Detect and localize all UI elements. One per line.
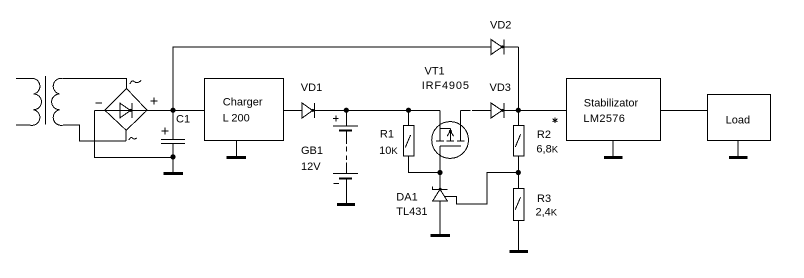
wire VD1 to battery node and R1 node [314,110,440,112]
node R1 top [406,108,411,113]
ground under R3 [510,250,528,253]
svg-text:TL431: TL431 [396,206,427,218]
label ~ bottom of bridge [129,138,137,140]
diode VD3 [491,103,504,118]
diode VD1 [302,103,314,118]
svg-text:Stabilizator: Stabilizator [584,97,639,109]
label asterisk [553,118,558,124]
label plus of C1 [162,128,169,135]
svg-text:6,8K: 6,8K [536,144,558,156]
svg-text:IRF4905: IRF4905 [422,80,470,92]
resistor R3 [513,173,524,250]
node GB1 [344,108,349,113]
svg-text:DA1: DA1 [396,191,417,203]
stabilizator box U2 [566,79,660,141]
ground under C1 [164,172,183,175]
svg-text:2,4K: 2,4K [536,207,558,219]
svg-text:R2: R2 [537,129,551,141]
label plus of GB1 [333,116,339,122]
transformer T1 secondary winding [52,78,63,125]
svg-text:LM2576: LM2576 [583,113,625,125]
node R2 R3 [516,170,521,175]
ground under GB1 [337,203,355,206]
svg-text:C1: C1 [176,113,190,125]
bridge rectifier diamond [105,88,147,130]
label plus right of bridge [151,97,158,104]
ground under stabilizator [604,141,623,159]
wire bridge bottom vertex stub [125,130,127,141]
node VD3 R2 [516,108,521,113]
svg-text:VD1: VD1 [301,82,322,94]
wire VD2 to node above VD3 [504,47,518,110]
load box [708,94,771,140]
ground under charger [227,141,246,159]
svg-text:10K: 10K [379,145,398,157]
svg-text:R1: R1 [380,129,394,141]
ground under DA1 [431,234,450,237]
node gate R1 DA1 [437,170,442,175]
svg-text:12V: 12V [301,161,321,173]
wire MOSFET drain to VD3 [461,110,491,112]
ground under load [729,141,748,159]
svg-text:VD2: VD2 [490,19,511,31]
svg-text:GB1: GB1 [301,145,323,157]
label ~ top of bridge [130,80,141,84]
svg-text:Load: Load [726,115,750,127]
transformer T1 core [45,76,47,125]
capacitor C1 [161,111,185,172]
svg-text:Charger: Charger [223,97,263,109]
wire VD3 to stabilizator [504,110,566,112]
wire bridge minus loop to C1 bottom [95,111,173,158]
transformer T1 primary winding [16,78,41,125]
label minus of GB1 [334,182,340,184]
bridge diode triangle [120,103,132,118]
label minus left of bridge [96,102,103,104]
transistor VT1 MOSFET [432,111,469,173]
wire charger to VD1 [284,110,303,112]
charger box U1 [205,79,284,141]
resistor R2 [513,111,524,173]
svg-text:VD3: VD3 [490,82,511,94]
svg-text:R3: R3 [537,193,551,205]
shunt regulator DA1 TL431 [432,187,447,234]
node C1 bottom [170,154,175,159]
svg-text:VT1: VT1 [425,66,445,78]
battery GB1 [333,111,358,204]
wire DA1 ref to R2 R3 node [444,173,518,204]
wire top feedback from C1 node to VD2 [173,47,491,111]
svg-text:L 200: L 200 [223,113,250,125]
wire secondary top lead to bridge [63,79,127,89]
node at C1 top [170,108,175,113]
wire node to DA1 [439,173,441,190]
wire stabilizator to load [661,110,708,112]
resistor R1 [403,111,440,173]
wire secondary bottom lead to bridge [63,125,126,141]
diode VD2 [491,40,504,55]
wire bridge plus to C1 node [147,110,205,112]
